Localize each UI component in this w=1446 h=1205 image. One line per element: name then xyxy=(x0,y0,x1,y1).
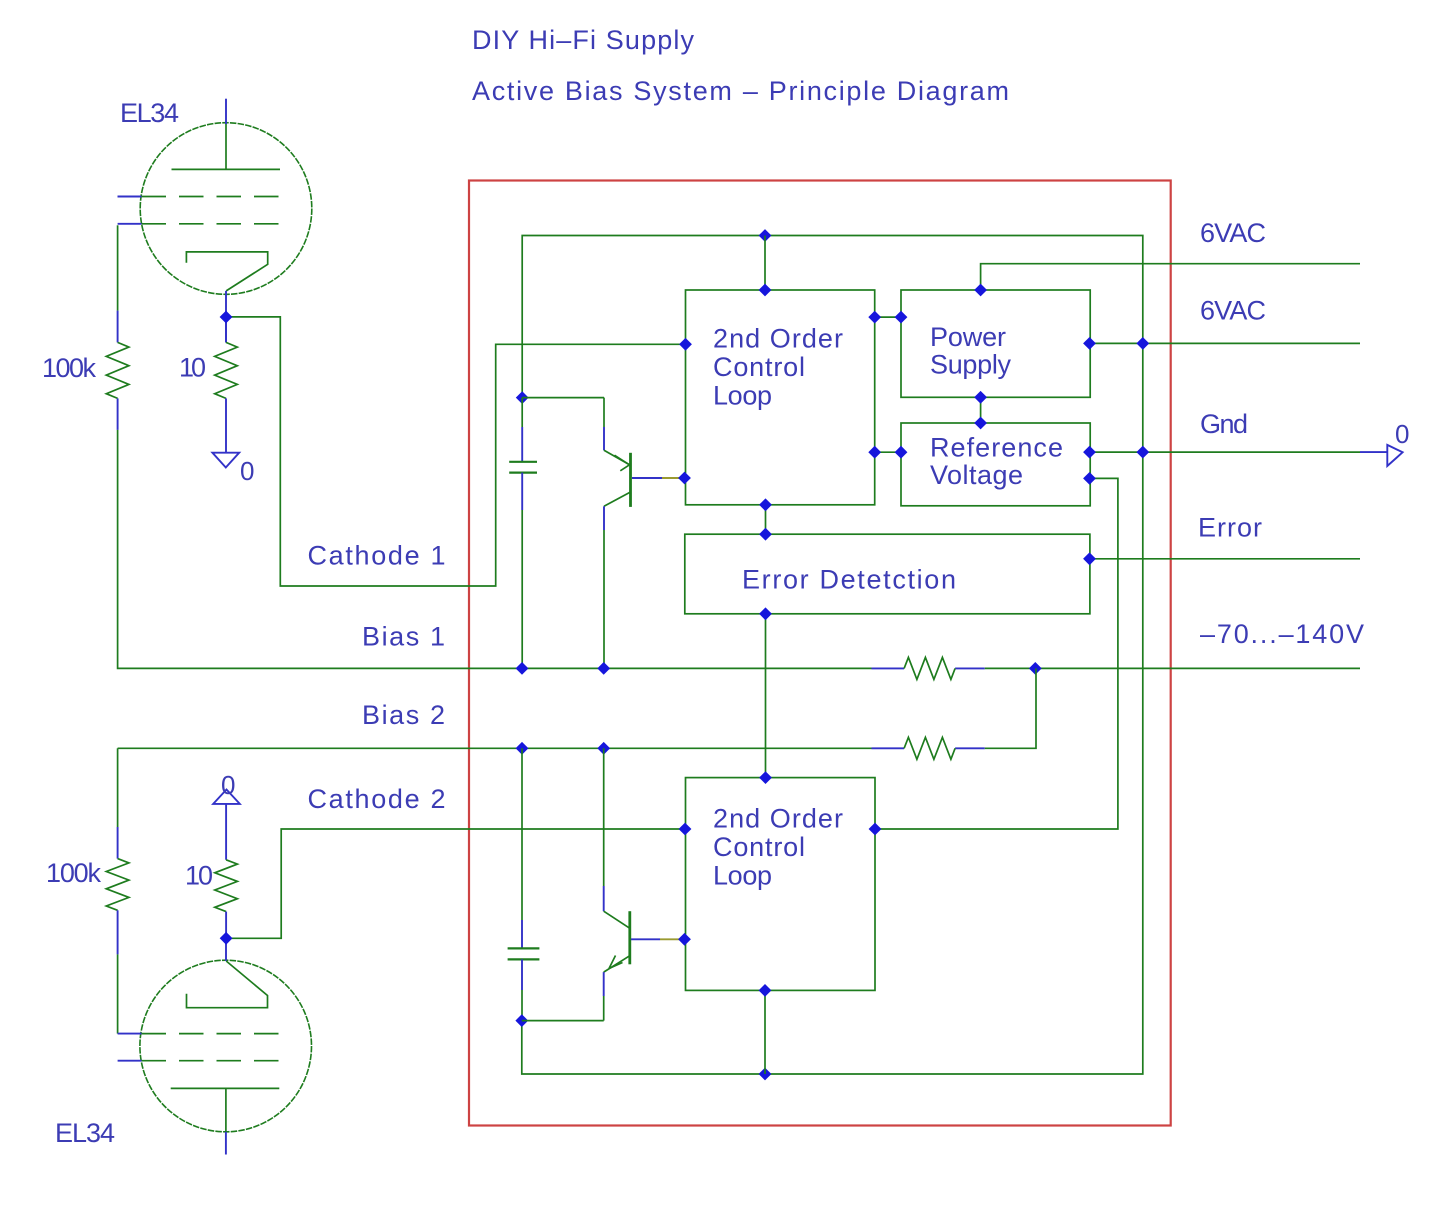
wire: 6VAC output 1 xyxy=(981,264,1360,290)
wire: Bias 1 net xyxy=(118,430,1360,669)
node: bus bottom junction xyxy=(759,1068,772,1081)
wire: Bias 2 net xyxy=(118,668,1036,827)
wire: error box bottom to control loop 2 top xyxy=(765,614,767,778)
svg-text:Control: Control xyxy=(713,832,806,862)
svg-text:Voltage: Voltage xyxy=(930,460,1024,490)
wire: grid2 of V1 down to R1 xyxy=(117,225,119,310)
tube V1 EL34 (top) xyxy=(118,99,312,343)
resistor R2 10 xyxy=(215,317,238,453)
svg-text:Cathode 2: Cathode 2 xyxy=(308,784,447,814)
red system boundary box xyxy=(469,181,1171,1126)
node: cathode1 at control loop 1 xyxy=(679,338,692,351)
transistor Q2 (NPN) xyxy=(604,886,683,996)
svg-text:6VAC: 6VAC xyxy=(1200,296,1267,326)
node: RV right xyxy=(1083,446,1096,459)
capacitor C2 xyxy=(508,748,540,1020)
ground symbol 0 (below R2) xyxy=(212,453,255,486)
node: bus-6VAC2 junction xyxy=(1136,337,1149,350)
node: RV top xyxy=(974,417,987,430)
resistor R6 10 xyxy=(215,804,238,938)
svg-text:0: 0 xyxy=(221,770,236,800)
node: PS top xyxy=(974,284,987,297)
svg-text:Control: Control xyxy=(713,352,806,382)
wire: Q1 collector to Bias 1 xyxy=(603,530,605,668)
node: C1 top junction xyxy=(516,391,529,404)
node: RV left xyxy=(895,446,908,459)
svg-text:Loop: Loop xyxy=(713,381,773,411)
node: Q1 base at control loop 1 xyxy=(678,472,691,485)
wire: Error output xyxy=(1090,558,1360,560)
svg-text:Error Detetction: Error Detetction xyxy=(742,565,957,595)
wire: loop2 right to RV lower output xyxy=(875,478,1118,829)
node: loop2 bottom xyxy=(759,984,772,997)
node: RV lower right xyxy=(1083,472,1096,485)
node: PS right xyxy=(1083,337,1096,350)
svg-text:2nd Order: 2nd Order xyxy=(713,804,844,834)
node: Q2 base at control loop 2 xyxy=(678,933,691,946)
node: Bias1-Q1 junction xyxy=(597,662,610,675)
svg-text:Loop: Loop xyxy=(713,861,773,891)
node: Bias2-C2 junction xyxy=(516,742,529,755)
resistor R5 100k xyxy=(106,827,129,1034)
wire: Q2 emitter to C2 xyxy=(603,996,605,1021)
node: loop2 right xyxy=(869,823,882,836)
svg-text:Reference: Reference xyxy=(930,433,1064,463)
svg-text:EL34: EL34 xyxy=(55,1118,116,1148)
svg-text:10: 10 xyxy=(185,861,214,891)
wire: PS bottom to RV top xyxy=(980,397,982,423)
block: Reference Voltage xyxy=(901,423,1090,506)
wire: bus junction to Q1 emitter xyxy=(522,397,604,399)
node: control loop 1 top edge xyxy=(759,284,772,297)
svg-text:Supply: Supply xyxy=(930,350,1012,380)
wire: Cathode 2 net xyxy=(226,829,685,938)
ground symbol 0 (above R6) xyxy=(213,770,240,804)
wire: main bus (top, right, bottom) xyxy=(522,236,1143,1075)
block: Power Supply xyxy=(901,290,1090,397)
node: V1 cathode junction xyxy=(220,311,233,324)
node: cathode2 at control loop 2 xyxy=(679,823,692,836)
svg-text:EL34: EL34 xyxy=(120,98,180,128)
wire: 6VAC output 2 xyxy=(1090,342,1360,344)
tube V2 EL34 (bottom) xyxy=(118,938,312,1154)
wire: loop2 bottom to bus xyxy=(764,990,766,1074)
node: error box top xyxy=(759,528,772,541)
wire: control loop 1 right to Power Supply xyxy=(875,316,901,318)
svg-text:0: 0 xyxy=(240,456,255,486)
svg-text:Cathode 1: Cathode 1 xyxy=(308,541,447,571)
node: PS bottom xyxy=(974,391,987,404)
node: loop2 top xyxy=(759,771,772,784)
node: C2-Q2 emitter junction xyxy=(515,1014,528,1027)
node: bus top junction xyxy=(759,229,772,242)
svg-text:10: 10 xyxy=(179,353,207,383)
node: Bias1-C1 junction xyxy=(516,662,529,675)
svg-text:Gnd: Gnd xyxy=(1200,409,1249,439)
node: Bias1-R3 junction xyxy=(1029,662,1042,675)
svg-text:–70...–140V: –70...–140V xyxy=(1200,619,1365,649)
resistor R4 (Bias 2) xyxy=(904,737,955,759)
node: Bias2-Q2 junction xyxy=(597,742,610,755)
wire: Gnd output xyxy=(1090,451,1360,453)
resistor R3 (Bias 1) xyxy=(904,657,955,679)
node: PS left xyxy=(895,311,908,324)
svg-text:Error: Error xyxy=(1198,513,1263,543)
wire: Bias2 to Q2 collector xyxy=(603,748,605,886)
transistor Q1 (PNP) xyxy=(604,427,684,530)
svg-text:Bias 2: Bias 2 xyxy=(362,700,446,730)
node: loop1 right lower xyxy=(868,446,881,459)
block: 2nd Order Control Loop (bottom) xyxy=(686,778,876,991)
svg-text:Power: Power xyxy=(930,322,1007,352)
ground flag 0 (Gnd output) xyxy=(1387,419,1410,466)
svg-text:100k: 100k xyxy=(46,858,102,888)
svg-text:6VAC: 6VAC xyxy=(1200,218,1267,248)
svg-text:2nd Order: 2nd Order xyxy=(713,324,844,354)
svg-text:Active Bias System – Princ: Active Bias System – Principle Diagram xyxy=(472,76,1010,106)
wire: control loop 1 right to Reference Voltage xyxy=(875,451,901,453)
wire: bus to control loop 1 top xyxy=(764,236,766,291)
capacitor C1 xyxy=(509,398,537,669)
block: 2nd Order Control Loop (top) xyxy=(686,290,875,505)
node: loop1 right upper xyxy=(868,311,881,324)
node: V2 cathode junction xyxy=(220,932,233,945)
node: bus-Gnd junction xyxy=(1136,446,1149,459)
svg-text:DIY Hi–Fi Supply: DIY Hi–Fi Supply xyxy=(472,25,695,55)
svg-text:Bias 1: Bias 1 xyxy=(362,622,446,652)
svg-text:0: 0 xyxy=(1395,419,1410,449)
node: loop1 bottom xyxy=(759,498,772,511)
wire: loop1 bottom to Error Detetction xyxy=(765,505,767,534)
node: error box right xyxy=(1083,552,1096,565)
node: error box bottom xyxy=(759,607,772,620)
block: Error Detetction xyxy=(685,534,1090,614)
resistor R1 100k xyxy=(106,311,129,430)
wire: Cathode 1 net xyxy=(226,317,686,586)
svg-text:100k: 100k xyxy=(42,353,97,383)
